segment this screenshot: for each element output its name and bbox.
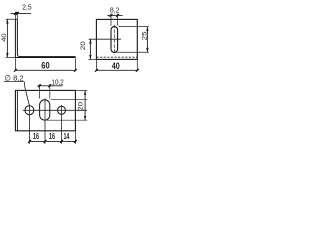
vertical centerline hole H1 [28,105,30,144]
dimension line 2,5 [11,12,32,14]
extension lines dim 40 bottom of square [96,60,137,71]
tick marks dim 2,5 [14,12,19,15]
extension line dim 20 left (bottom edge extended) [89,58,96,60]
slot horizontal centerline + ext for dim 20 [89,38,121,40]
svg-text:40: 40 [1,33,8,42]
dimension line 60 [15,69,75,71]
tick marks dim 60 [14,69,77,72]
arrowhead down dim 40 [6,53,8,57]
vertical centerline hole H2 [61,105,63,144]
arrowheads dim 20 right [84,91,86,95]
svg-text:10,2: 10,2 [51,77,63,86]
svg-text:20: 20 [77,102,84,111]
extension line at slot bottom to dim 20 right [45,119,87,121]
svg-text:16: 16 [49,131,55,141]
extension lines above leg for dim 2,5 [15,12,17,19]
tick marks chain [28,140,77,143]
hole H1 circle [25,106,34,115]
arrowheads dim 25 [146,27,148,31]
svg-text:16: 16 [33,131,39,141]
horizontal centerline through holes + ext to dim 20 right [23,109,87,111]
extension lines for dim 60 [15,58,75,71]
svg-text:40: 40 [112,61,120,71]
chain extension: right edge [74,131,76,144]
extension lines dim 8,2 [111,14,118,26]
extension lines for dim 40 (left) [6,19,16,57]
leader diam 8,2 elbow and diagonal to hole H1 [24,82,29,106]
leader diam 8,2 underline [4,81,24,83]
dimension line 25 (right) [146,27,148,53]
svg-text:8,2: 8,2 [110,6,120,15]
extension lines dim 10,2 [40,84,50,99]
dimension line 8,2 [107,14,122,16]
slot (vertical stadium) [111,27,118,53]
svg-text:2,5: 2,5 [22,3,31,12]
vertical centerline slot [44,98,46,143]
svg-text:20: 20 [80,41,87,50]
slot vertical centerline [113,25,115,55]
dimension line 20 (right of plan) [84,90,86,120]
dimension line 40 bottom [96,69,137,71]
side view outline L-profile [15,19,75,57]
inner line of upright leg (plan) [16,90,18,130]
svg-text:25: 25 [141,31,148,40]
tick marks dim 40 bottom [95,69,139,72]
slot (plan, vertical stadium) [40,100,50,120]
dimension line 40 (left) [6,19,8,57]
extension lines dim 25 (right) [117,27,149,53]
svg-text:14: 14 [63,131,69,141]
hidden dashed line (leg top surface) [96,56,137,58]
end view square outline [96,19,137,59]
arrowheads dim 20 left [89,39,91,43]
tick marks dim 8,2 [110,14,119,17]
chain dimension line 16/16/14 [30,140,76,142]
dimension line 10,2 [37,85,62,87]
extension line dim 20 right (top edge extended) [76,89,87,91]
hole H2 circle [58,106,66,114]
svg-text:60: 60 [41,60,49,70]
tick marks dim 10,2 [38,84,51,87]
arrowhead up dim 40 [6,19,8,23]
svg-text:∅ 8,2: ∅ 8,2 [4,73,23,82]
plan view rectangle [15,90,75,130]
extension line at slot top to dim 20 right [51,99,88,101]
dimension line 20 (left of square) [89,39,91,59]
